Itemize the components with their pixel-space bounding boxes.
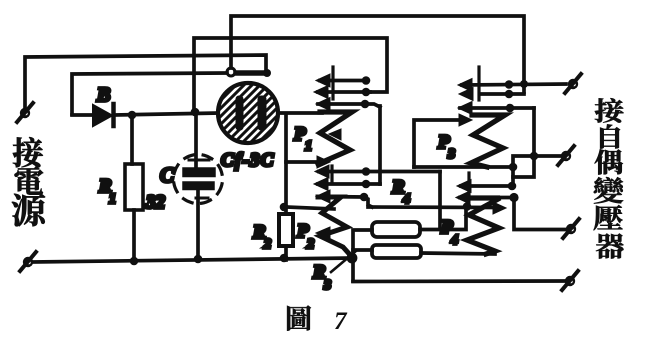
wire to terminal 3 <box>514 197 566 230</box>
wire <box>196 189 200 259</box>
tube hatch <box>154 83 342 143</box>
junction <box>263 69 271 77</box>
switch arm A <box>461 184 512 188</box>
text ou <box>595 149 623 174</box>
junction <box>280 254 289 263</box>
wire <box>130 115 134 164</box>
arrow P4 wiper <box>493 202 506 214</box>
potentiometer P1 <box>318 112 352 164</box>
resistor R4 <box>372 222 420 237</box>
wire <box>420 208 466 230</box>
wire R3 right to P4 <box>421 253 495 254</box>
wire <box>284 162 288 214</box>
switch arm C <box>320 197 372 208</box>
wire P3 feed <box>414 120 462 167</box>
wire <box>278 111 322 115</box>
junction <box>191 108 200 117</box>
svg-text:C: C <box>160 163 175 187</box>
switch arm B <box>481 92 524 96</box>
wire <box>378 106 382 184</box>
wire switch to R4 <box>438 172 442 230</box>
switch arm A <box>320 79 366 83</box>
wire <box>25 55 266 108</box>
text qi <box>596 234 624 259</box>
junction <box>128 111 137 120</box>
wire <box>284 246 288 260</box>
arrow P1 lower <box>317 156 330 168</box>
wire <box>72 113 95 117</box>
switch arm A to terminal <box>462 84 566 85</box>
switch pole tick <box>331 67 334 99</box>
wire <box>353 230 372 281</box>
diode B <box>93 105 112 126</box>
tube CF-3C body <box>218 83 278 143</box>
svg-text:1: 1 <box>305 139 312 154</box>
text yuan <box>12 194 45 227</box>
wire <box>236 70 265 76</box>
svg-text:32: 32 <box>145 192 166 213</box>
capacitor C minus tick <box>196 197 208 200</box>
resistor R2 <box>279 214 293 246</box>
switch arm A <box>319 170 440 174</box>
node tube top pin <box>227 68 235 76</box>
terminal right mid1 <box>561 151 571 161</box>
wire <box>132 210 136 261</box>
text ya <box>594 205 623 230</box>
switch arm C <box>318 104 380 107</box>
text dian <box>14 166 43 194</box>
svg-text:1: 1 <box>109 192 116 207</box>
svg-text:2: 2 <box>306 237 314 252</box>
svg-text:B: B <box>96 84 110 106</box>
switch pole tick <box>467 173 470 194</box>
junction <box>509 163 518 172</box>
text jie (left) <box>13 137 43 167</box>
text jie (right) <box>595 98 624 123</box>
wire P3 bottom <box>414 165 513 169</box>
resistor R3 <box>372 245 421 258</box>
junction <box>130 257 139 266</box>
switch arm C <box>460 106 534 110</box>
svg-text:7: 7 <box>334 308 348 335</box>
switch pole tick <box>477 67 480 100</box>
wire to terminal 2 <box>513 156 561 186</box>
wire R2 to P2 wiper <box>286 207 334 209</box>
wire B+ upper <box>194 38 387 112</box>
wire bus <box>33 258 352 262</box>
switch arm B <box>318 182 380 186</box>
arrow P3 wiper <box>459 114 472 126</box>
wire top loop <box>231 16 524 92</box>
svg-text:4: 4 <box>450 233 458 248</box>
terminal input bottom <box>23 257 33 267</box>
capacitor C bottom plate <box>183 182 214 190</box>
potentiometer P2 <box>318 197 352 257</box>
text zi <box>600 124 620 148</box>
junction bus end <box>347 253 358 264</box>
wire <box>194 112 198 168</box>
junction <box>463 202 472 211</box>
terminal input top <box>20 108 30 118</box>
text tu (figure) <box>287 305 311 330</box>
potentiometer P4 <box>466 198 500 254</box>
capacitor C dashed circle <box>168 149 228 209</box>
terminal right top <box>568 79 578 89</box>
capacitor C plus tick <box>189 159 209 162</box>
svg-text:3: 3 <box>447 147 455 162</box>
text bian <box>594 177 623 204</box>
resistor R1 <box>125 164 143 210</box>
arrow P2 wiper <box>316 227 330 239</box>
terminal right mid2 <box>566 224 576 234</box>
terminal right bottom <box>565 276 575 286</box>
junction <box>194 255 203 264</box>
wire long mid <box>368 205 500 209</box>
junction <box>520 80 528 88</box>
potentiometer P3 <box>471 115 505 167</box>
junction <box>530 152 539 161</box>
svg-text:4: 4 <box>402 192 410 207</box>
wire <box>513 108 534 177</box>
switch arm B <box>318 90 370 94</box>
wire <box>115 113 218 115</box>
capacitor C top plate <box>183 168 215 177</box>
wire to terminal bottom <box>353 279 565 283</box>
svg-text:3: 3 <box>323 278 331 293</box>
svg-text:Cf-3C: Cf-3C <box>221 150 275 171</box>
junction <box>280 203 289 212</box>
switch pole tick <box>330 166 333 182</box>
wire P1 left loop <box>286 114 322 162</box>
label R3 leader <box>331 251 356 272</box>
tube electrodes <box>236 96 243 130</box>
svg-text:2: 2 <box>263 237 271 252</box>
wire <box>72 73 227 114</box>
switch arm B <box>460 196 514 200</box>
arrow P1 wiper notch <box>329 129 341 140</box>
wire R3 left <box>353 248 372 252</box>
